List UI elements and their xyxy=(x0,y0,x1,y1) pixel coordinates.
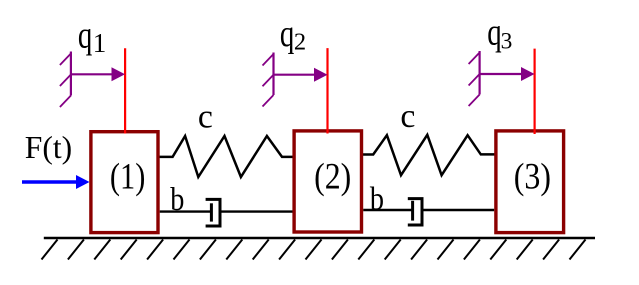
label (3) xyxy=(514,155,551,197)
svg-text:2: 2 xyxy=(294,29,306,56)
force arrow F(t) xyxy=(22,180,78,183)
svg-text:q: q xyxy=(78,15,92,57)
red reference line 2 xyxy=(326,48,328,133)
svg-text:c: c xyxy=(198,99,213,136)
svg-text:b: b xyxy=(170,181,184,217)
wall + arrow q1 xyxy=(60,52,113,108)
label q1 xyxy=(78,15,92,57)
mass block 2 xyxy=(294,131,361,232)
spring c2 xyxy=(362,135,495,175)
label (1) xyxy=(110,156,145,197)
svg-text:c: c xyxy=(400,98,415,135)
red reference line 1 xyxy=(124,48,126,133)
svg-text:3: 3 xyxy=(501,29,513,55)
wall + arrow q2 xyxy=(263,53,316,107)
svg-text:(1): (1) xyxy=(110,156,145,197)
label q2 xyxy=(280,13,294,55)
svg-text:q: q xyxy=(487,11,501,53)
damper b1 xyxy=(160,199,293,226)
damper b2 xyxy=(363,199,494,225)
spring c1 xyxy=(158,136,294,177)
svg-text:q: q xyxy=(280,13,294,55)
mass block 1 xyxy=(91,132,158,233)
svg-text:(3): (3) xyxy=(514,155,551,197)
wall + arrow q3 xyxy=(469,51,522,106)
label (2) xyxy=(314,155,351,197)
mass block 3 xyxy=(496,131,564,233)
svg-text:F(t): F(t) xyxy=(25,130,72,165)
ground xyxy=(42,238,596,260)
svg-text:b: b xyxy=(370,181,384,217)
red reference line 3 xyxy=(533,49,535,134)
label b1 xyxy=(170,181,184,217)
svg-text:1: 1 xyxy=(93,28,107,58)
svg-text:(2): (2) xyxy=(314,155,351,197)
label b2 xyxy=(370,181,384,217)
label q3 xyxy=(487,11,501,53)
